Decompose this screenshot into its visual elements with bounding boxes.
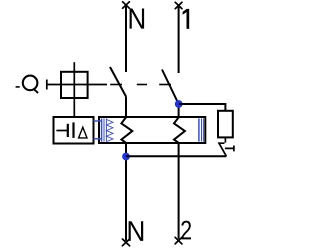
trip unit plate 1 [67,124,69,137]
terminal X top 1 [175,2,182,8]
test wire bottom [126,155,226,157]
actuator square Q [61,72,88,98]
wire below contact 1 [178,104,180,118]
actuator vertical link [73,62,75,117]
wire resistor to switch [224,137,226,142]
wire 1 top [178,6,180,74]
trip unit lead [56,130,67,132]
primary conductor N through CT [121,117,132,143]
wire dot to resistor [179,104,226,111]
resistor R test [218,111,233,138]
CT secondary winding zigzag [106,119,113,141]
terminal X top N [123,2,130,8]
test switch blade [219,143,226,156]
RCD trip unit box [54,117,94,144]
CT hatch right [199,118,204,141]
wire N top [125,5,127,72]
junction dot phase/test [175,100,183,108]
junction dot neutral/test [122,153,130,161]
trip unit plate 2 [72,122,74,137]
wire below contact N [125,97,127,119]
actuator tick left [46,80,48,90]
label -Q [16,86,20,88]
mechanical linkage dashed [110,84,171,86]
CT core box [99,117,205,143]
terminal X bottom 2 [175,237,182,244]
label 1 top [183,9,190,29]
CT hatch left [102,118,107,141]
label N bottom [129,221,144,241]
breaker contact pole 1 blade [162,70,179,105]
secondary winding wire bottom [94,138,102,140]
terminal X bottom N [122,239,129,246]
actuator horizontal link [47,84,107,86]
wire N bottom [125,143,127,241]
label N top [130,9,145,29]
trip unit delta [79,127,87,138]
breaker contact pole N blade [110,67,126,97]
wire 2 bottom [178,143,180,239]
primary conductor 1 through CT [174,117,185,143]
test button actuator [225,146,234,152]
secondary winding wire top [94,120,102,122]
label 2 bottom [181,221,191,240]
